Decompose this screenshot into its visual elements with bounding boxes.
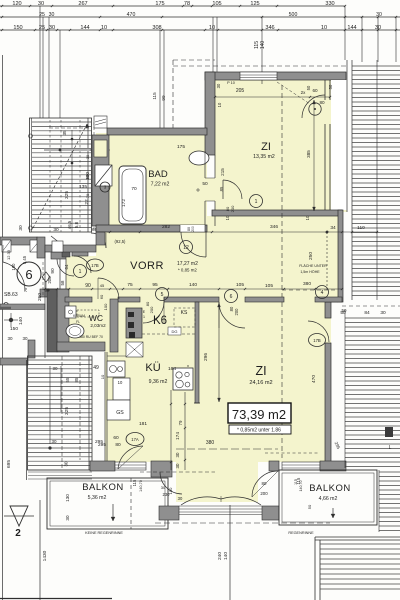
- svg-text:380: 380: [206, 440, 215, 446]
- svg-text:10: 10: [209, 25, 215, 31]
- svg-text:100: 100: [103, 303, 108, 310]
- svg-text:115: 115: [132, 479, 137, 486]
- svg-text:7,22 m2: 7,22 m2: [151, 182, 170, 188]
- svg-text:BALKON: BALKON: [82, 482, 124, 493]
- svg-text:150: 150: [13, 25, 22, 31]
- svg-text:150: 150: [10, 326, 18, 332]
- svg-text:30: 30: [22, 336, 28, 341]
- svg-text:SB.63: SB.63: [4, 292, 18, 298]
- svg-text:50: 50: [342, 308, 347, 313]
- svg-text:2,03m2: 2,03m2: [90, 323, 106, 328]
- svg-text:470: 470: [311, 375, 317, 383]
- svg-text:135: 135: [79, 184, 87, 190]
- svg-text:325: 325: [64, 191, 70, 199]
- svg-text:260: 260: [37, 293, 43, 301]
- svg-text:50: 50: [328, 84, 333, 89]
- svg-text:70: 70: [86, 194, 90, 198]
- svg-text:30: 30: [216, 83, 221, 88]
- svg-text:10: 10: [321, 25, 327, 31]
- svg-text:BALKON: BALKON: [309, 483, 351, 494]
- svg-text:(92,5): (92,5): [115, 239, 127, 244]
- svg-text:10: 10: [305, 215, 310, 220]
- svg-text:12 33: 12 33: [6, 249, 11, 260]
- svg-text:24,16 m2: 24,16 m2: [249, 380, 272, 386]
- svg-text:500: 500: [289, 12, 298, 18]
- svg-text:35: 35: [62, 130, 68, 136]
- svg-text:140: 140: [260, 41, 266, 50]
- svg-text:140: 140: [189, 282, 197, 288]
- svg-text:380: 380: [303, 281, 311, 287]
- svg-text:200: 200: [47, 276, 52, 284]
- svg-text:385: 385: [306, 150, 311, 158]
- svg-text:9,36 m2: 9,36 m2: [149, 379, 168, 385]
- svg-text:45: 45: [100, 283, 105, 288]
- svg-text:1: 1: [255, 199, 258, 205]
- svg-text:60: 60: [113, 435, 119, 441]
- svg-text:174: 174: [175, 432, 181, 440]
- svg-text:30: 30: [178, 496, 183, 501]
- svg-text:105: 105: [265, 283, 273, 289]
- svg-text:BAD: BAD: [148, 169, 168, 180]
- svg-text:5,36 m2: 5,36 m2: [88, 495, 107, 501]
- svg-text:FL: FL: [76, 320, 80, 324]
- svg-text:30: 30: [161, 485, 166, 490]
- svg-text:140: 140: [223, 552, 229, 560]
- svg-text:130: 130: [65, 494, 70, 502]
- svg-text:17A: 17A: [131, 437, 139, 442]
- svg-text:125: 125: [250, 1, 259, 7]
- svg-text:5,8: 5,8: [74, 221, 79, 228]
- svg-text:90: 90: [85, 283, 91, 289]
- svg-text:470: 470: [127, 12, 136, 18]
- svg-text:17,27 m2: 17,27 m2: [177, 261, 198, 267]
- svg-text:175: 175: [155, 1, 164, 7]
- svg-text:KERAM: KERAM: [73, 314, 85, 318]
- svg-text:695: 695: [6, 460, 12, 468]
- svg-text:30: 30: [53, 227, 59, 233]
- svg-text:x: x: [187, 363, 189, 368]
- svg-text:75: 75: [127, 282, 133, 288]
- svg-text:60: 60: [99, 294, 104, 299]
- svg-text:1: 1: [79, 269, 82, 275]
- svg-text:330: 330: [325, 1, 334, 7]
- svg-text:* 0,85 m2: * 0,85 m2: [178, 268, 197, 273]
- svg-text:30: 30: [380, 310, 386, 316]
- svg-text:172: 172: [121, 199, 127, 207]
- svg-text:80: 80: [145, 301, 150, 306]
- svg-text:5: 5: [161, 292, 164, 298]
- svg-text:ZI: ZI: [255, 364, 266, 378]
- svg-text:95: 95: [152, 282, 158, 288]
- svg-text:17B: 17B: [91, 263, 99, 268]
- svg-text:30: 30: [52, 366, 58, 371]
- svg-text:30: 30: [175, 463, 180, 468]
- svg-text:325: 325: [64, 407, 70, 415]
- svg-text:5,45: 5,45: [22, 255, 27, 264]
- svg-text:99: 99: [161, 95, 166, 101]
- svg-text:215: 215: [220, 168, 225, 176]
- svg-text:10: 10: [217, 102, 222, 107]
- svg-text:200: 200: [230, 205, 235, 212]
- svg-text:200: 200: [191, 226, 195, 232]
- svg-text:70: 70: [131, 186, 137, 192]
- svg-text:144: 144: [347, 25, 356, 31]
- svg-text:4,66 m2: 4,66 m2: [319, 496, 338, 502]
- svg-text:282: 282: [162, 224, 170, 230]
- svg-text:115: 115: [296, 477, 301, 484]
- svg-text:1: 1: [143, 315, 145, 319]
- svg-text:105: 105: [212, 1, 221, 7]
- svg-text:30: 30: [65, 515, 70, 521]
- svg-text:140,70: 140,70: [139, 480, 143, 492]
- svg-text:17B: 17B: [313, 338, 321, 343]
- svg-text:296: 296: [203, 353, 209, 361]
- svg-text:10: 10: [101, 25, 107, 31]
- svg-text:58: 58: [60, 280, 65, 285]
- svg-text:KÜ: KÜ: [145, 362, 160, 374]
- svg-text:13,35 m2: 13,35 m2: [253, 154, 275, 160]
- svg-text:2: 2: [15, 528, 21, 539]
- svg-text:105: 105: [236, 282, 244, 288]
- svg-text:46,5: 46,5: [67, 220, 72, 229]
- svg-text:P 10: P 10: [227, 81, 235, 85]
- svg-text:30: 30: [175, 452, 180, 457]
- svg-text:6: 6: [230, 294, 233, 300]
- svg-text:30: 30: [49, 25, 55, 31]
- svg-text:WC: WC: [89, 313, 103, 323]
- svg-text:75: 75: [23, 287, 28, 292]
- svg-text:80: 80: [319, 100, 325, 105]
- svg-text:100: 100: [11, 263, 16, 271]
- svg-text:267: 267: [78, 1, 87, 7]
- svg-text:250: 250: [308, 252, 314, 260]
- svg-text:80: 80: [115, 442, 121, 448]
- svg-text:30: 30: [376, 12, 382, 18]
- svg-text:30: 30: [64, 461, 69, 466]
- svg-text:49: 49: [93, 365, 99, 371]
- svg-text:1,5m HÖHE: 1,5m HÖHE: [300, 270, 320, 274]
- svg-text:10: 10: [118, 380, 123, 385]
- svg-text:140: 140: [18, 317, 24, 325]
- svg-text:30: 30: [49, 12, 55, 18]
- svg-text:78: 78: [184, 1, 190, 7]
- svg-text:80: 80: [262, 481, 267, 486]
- svg-text:KEINE REGENRINNE: KEINE REGENRINNE: [85, 531, 123, 535]
- svg-text:10: 10: [100, 374, 105, 379]
- svg-text:10: 10: [225, 215, 230, 220]
- svg-text:12: 12: [183, 245, 189, 251]
- svg-text:34: 34: [330, 225, 336, 231]
- svg-text:GS: GS: [116, 410, 124, 416]
- svg-text:115: 115: [152, 92, 157, 100]
- svg-text:200: 200: [149, 306, 154, 313]
- svg-text:6: 6: [25, 267, 32, 282]
- svg-text:73,39 m2: 73,39 m2: [232, 407, 286, 422]
- svg-text:DG: DG: [172, 329, 178, 334]
- svg-text:50: 50: [306, 85, 311, 90]
- svg-text:FLÄCHE UNTER: FLÄCHE UNTER: [299, 264, 327, 268]
- svg-text:50: 50: [202, 181, 208, 187]
- svg-text:4: 4: [321, 290, 324, 296]
- svg-text:164: 164: [168, 366, 176, 372]
- svg-text:84: 84: [364, 310, 370, 316]
- svg-text:30: 30: [86, 155, 90, 159]
- svg-text:346: 346: [270, 224, 278, 230]
- svg-text:85: 85: [74, 377, 79, 383]
- svg-text:REGENRINNE: REGENRINNE: [288, 531, 314, 535]
- svg-text:200: 200: [234, 308, 239, 316]
- svg-text:30: 30: [7, 336, 13, 341]
- svg-text:1430: 1430: [42, 550, 48, 561]
- svg-text:200: 200: [260, 491, 268, 496]
- svg-text:50: 50: [307, 504, 312, 509]
- svg-text:* 0,85m2 unter 1.86: * 0,85m2 unter 1.86: [237, 428, 281, 434]
- svg-text:22: 22: [84, 199, 90, 205]
- svg-text:K6: K6: [153, 315, 167, 327]
- svg-text:180 RU BEF 70: 180 RU BEF 70: [79, 335, 103, 339]
- svg-text:300: 300: [85, 172, 91, 180]
- svg-text:30: 30: [51, 439, 57, 444]
- svg-text:295: 295: [98, 442, 106, 448]
- svg-text:346: 346: [265, 25, 274, 31]
- svg-text:144: 144: [80, 25, 89, 31]
- svg-text:64: 64: [64, 264, 69, 269]
- svg-text:KS: KS: [181, 310, 188, 316]
- svg-text:120: 120: [12, 1, 21, 7]
- svg-text:90: 90: [50, 268, 56, 274]
- svg-text:30: 30: [18, 225, 24, 231]
- svg-text:181: 181: [139, 421, 147, 427]
- svg-text:79: 79: [178, 420, 183, 425]
- svg-text:205: 205: [236, 88, 245, 94]
- svg-text:L: L: [389, 445, 392, 451]
- svg-text:110: 110: [357, 225, 365, 231]
- svg-text:230: 230: [163, 492, 171, 497]
- svg-text:240: 240: [217, 552, 223, 560]
- svg-text:VORR: VORR: [130, 260, 164, 272]
- svg-text:30: 30: [38, 1, 44, 7]
- svg-text:55: 55: [65, 377, 70, 383]
- svg-text:60: 60: [312, 88, 318, 93]
- svg-text:175: 175: [177, 144, 185, 150]
- svg-text:ZI: ZI: [261, 141, 271, 153]
